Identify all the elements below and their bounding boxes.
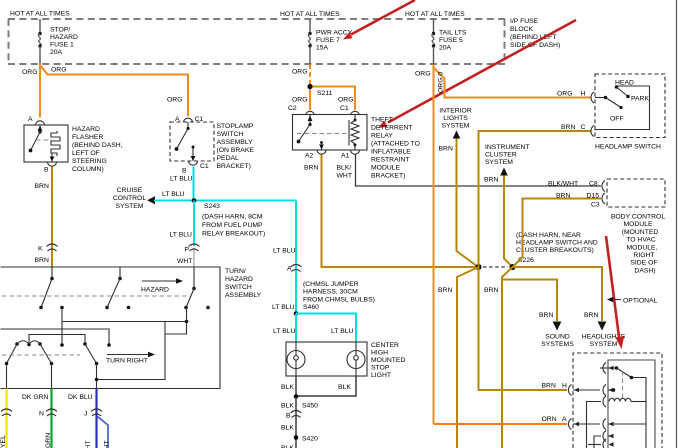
- svg-text:BLK: BLK: [338, 384, 351, 391]
- internal wire horizontal y322: [62, 321, 187, 323]
- hazard arrow label: [141, 278, 183, 293]
- svg-text:BRN: BRN: [539, 312, 553, 319]
- svg-text:20A: 20A: [50, 49, 63, 56]
- svg-text:BRN: BRN: [439, 146, 453, 153]
- svg-text:BRN: BRN: [35, 257, 49, 264]
- internal wire contact3 drop: [165, 308, 188, 335]
- internal wire riser to blue node: [97, 322, 166, 380]
- svg-text:(BEHIND DASH,: (BEHIND DASH,: [72, 142, 123, 149]
- dimmer coil row: [587, 396, 647, 448]
- svg-text:DASH): DASH): [634, 267, 655, 274]
- svg-text:FUSE 7: FUSE 7: [316, 37, 340, 44]
- svg-text:TAIL LTS: TAIL LTS: [439, 30, 467, 37]
- svg-text:LEFT OF: LEFT OF: [72, 150, 100, 157]
- svg-text:SOUND: SOUND: [545, 334, 570, 341]
- headlamp switch contacts: [595, 85, 630, 109]
- hazard flasher FL box: [24, 125, 68, 162]
- svg-text:H: H: [581, 91, 586, 98]
- connector C (headlamp switch): [591, 126, 594, 137]
- relay switch (C2 side): [297, 115, 313, 144]
- headlamp switch box (dashed): [595, 74, 665, 138]
- svg-text:HAZARD: HAZARD: [72, 126, 100, 133]
- internal wire from contact to lower section: [61, 308, 63, 346]
- svg-text:FUSE 5: FUSE 5: [439, 37, 463, 44]
- arrow to cruise control system: [147, 196, 155, 204]
- wire ORN to headlight dimmer A: [434, 423, 568, 425]
- svg-text:ORG 0: ORG 0: [438, 72, 445, 93]
- arrow to headlights system: [598, 322, 607, 331]
- wire LT BLU S460 branch to right bulb: [296, 314, 356, 343]
- svg-text:SYSTEM: SYSTEM: [442, 123, 470, 130]
- node S420: [294, 435, 318, 442]
- headlight dimmer switch box (dashed): [573, 353, 662, 448]
- label THEFT DETERRENT RELAY (ATTACHED TO INFLATABLE RESTRAINT MODULE BRACKET): [371, 117, 420, 180]
- arrow to interior lights system: [453, 131, 461, 139]
- connector arcs C2 C1 (relay top): [306, 111, 360, 115]
- svg-text:STEERING: STEERING: [72, 158, 107, 165]
- wire BRN right splice to D15: [513, 199, 602, 268]
- svg-text:C1: C1: [200, 163, 209, 170]
- svg-text:WHT: WHT: [104, 441, 111, 448]
- svg-text:TURN RIGHT: TURN RIGHT: [106, 358, 148, 365]
- svg-text:15A: 15A: [316, 45, 329, 52]
- wire BRN to interior lights: [457, 139, 478, 267]
- svg-text:ORG: ORG: [292, 97, 307, 104]
- svg-text:SIDE OF: SIDE OF: [630, 260, 657, 267]
- headlamp switch internal wire to C: [595, 86, 650, 130]
- label HEADLIGHTS SYSTEM: [582, 334, 626, 349]
- label SOUND SYSTEMS: [541, 334, 574, 349]
- svg-text:BLK: BLK: [281, 425, 294, 432]
- wire BLK bulbs to S450: [296, 376, 356, 397]
- wire ORG dashed (optional) fuse7 to S211: [309, 65, 311, 86]
- svg-text:LT BLU: LT BLU: [273, 248, 296, 255]
- svg-text:RELAY BREAKOUT): RELAY BREAKOUT): [202, 231, 265, 238]
- svg-text:CRUISE: CRUISE: [117, 187, 143, 194]
- headlight dimmer inner housing: [608, 360, 655, 448]
- stoplamp switch S box (dashed): [170, 122, 214, 161]
- svg-text:HOT AT ALL TIMES: HOT AT ALL TIMES: [405, 11, 465, 18]
- connector B in-line: [286, 411, 302, 420]
- relay pin A2: [319, 141, 324, 150]
- svg-text:BRN: BRN: [304, 165, 318, 172]
- svg-text:C1: C1: [340, 105, 349, 112]
- svg-text:SWITCH: SWITCH: [217, 131, 244, 138]
- label INSTRUMENT CLUSTER SYSTEM: [485, 144, 530, 166]
- svg-text:OFF: OFF: [610, 116, 624, 123]
- svg-text:DK GRN: DK GRN: [22, 394, 49, 401]
- wire ORG S211 to C1: [310, 87, 355, 111]
- wire BRN to sound systems: [502, 280, 557, 322]
- svg-text:HAZARD: HAZARD: [141, 287, 169, 294]
- turn switch dashed travel line: [2, 354, 80, 356]
- wire BRN splice up to headlamp switch C: [479, 131, 592, 267]
- svg-text:C8: C8: [589, 181, 598, 188]
- wire LT BLU vertical to A connector: [295, 201, 297, 314]
- optional flag: [607, 297, 658, 305]
- svg-text:BLK/: BLK/: [337, 165, 352, 172]
- svg-text:BRN: BRN: [556, 193, 570, 200]
- node S450: [294, 394, 318, 409]
- label ORG H: [557, 91, 586, 98]
- connector D15 (BCM): [602, 193, 605, 204]
- svg-text:LIGHT: LIGHT: [371, 372, 391, 379]
- svg-text:B: B: [286, 413, 291, 420]
- svg-text:ORN: ORN: [542, 416, 557, 423]
- svg-text:ASSEMBLY: ASSEMBLY: [225, 292, 262, 299]
- label HAZARD FLASHER (BEHIND DASH, LEFT OF STEERING COLUMN): [72, 126, 123, 173]
- wire BLK/WHT relay A1 to BCM C8: [356, 155, 602, 187]
- svg-text:ORG: ORG: [557, 91, 572, 98]
- wire DK BLU with split: [68, 389, 111, 448]
- hazard switch dashed travel line: [2, 295, 190, 297]
- svg-text:RELAY: RELAY: [371, 133, 393, 140]
- svg-text:HIGH: HIGH: [371, 350, 388, 357]
- node S226 left splice: [476, 264, 482, 270]
- svg-text:COLUMN): COLUMN): [72, 166, 104, 173]
- theft deterrent relay box: [293, 115, 368, 151]
- svg-text:H: H: [562, 383, 567, 390]
- svg-text:WHT: WHT: [337, 173, 352, 180]
- connector arcs A2 A1 (relay bottom): [317, 151, 360, 155]
- svg-text:(ON BRAKE: (ON BRAKE: [217, 147, 255, 154]
- svg-text:C3: C3: [591, 202, 600, 209]
- svg-text:ORG: ORG: [51, 67, 66, 74]
- wire BRN flasher B to K: [51, 167, 53, 268]
- svg-text:DETERRENT: DETERRENT: [371, 125, 413, 132]
- dimmer pin row 6: [588, 439, 606, 448]
- page edge rule: [676, 0, 678, 448]
- fuse F5 TAIL LTS FUSE 5 20A: [432, 19, 467, 65]
- svg-text:B: B: [182, 168, 187, 175]
- label BRN C: [561, 124, 586, 131]
- connector H (dimmer): [568, 385, 615, 396]
- connector C8 (BCM): [602, 181, 605, 192]
- svg-text:STOPLAMP: STOPLAMP: [217, 123, 254, 130]
- svg-text:HAZARD: HAZARD: [50, 34, 78, 41]
- svg-text:C: C: [581, 124, 586, 131]
- svg-text:HAZARD: HAZARD: [225, 276, 253, 283]
- label BLK/WHT: [337, 165, 352, 180]
- svg-text:ORG: ORG: [415, 71, 430, 78]
- wire BRN right splice down-left branch: [502, 267, 513, 448]
- svg-text:INFLATABLE: INFLATABLE: [371, 149, 411, 156]
- svg-text:TURN/: TURN/: [225, 268, 246, 275]
- label CENTER HIGH MOUNTED STOP LIGHT: [371, 342, 405, 379]
- svg-text:HARNESS, 30CM: HARNESS, 30CM: [303, 289, 358, 296]
- svg-text:S420: S420: [302, 436, 318, 443]
- label BLK/WHT C8: [548, 181, 598, 188]
- svg-text:CENTER: CENTER: [371, 342, 399, 349]
- label (DASH HARN, 8CM FROM FUEL PUMP RELAY BREAKOUT): [202, 214, 265, 238]
- svg-text:WHT: WHT: [177, 258, 192, 265]
- svg-text:BRN: BRN: [484, 177, 498, 184]
- svg-text:HEADLAMP SWITCH: HEADLAMP SWITCH: [595, 144, 661, 151]
- dimmer pin row 5: [594, 431, 613, 448]
- wire BLK S450 to B: [295, 397, 297, 448]
- svg-text:THEFT: THEFT: [371, 117, 393, 124]
- svg-text:S460: S460: [303, 304, 319, 311]
- svg-text:PARK: PARK: [631, 96, 649, 103]
- svg-text:BLOCK: BLOCK: [510, 26, 534, 33]
- hazard switch contact 3 (WHT feed): [184, 267, 210, 309]
- wire BRN relay A2 to S226: [322, 155, 478, 268]
- svg-text:S211: S211: [317, 90, 333, 97]
- label BRN H (dimmer): [542, 383, 568, 390]
- svg-text:BLK/WHT: BLK/WHT: [548, 181, 578, 188]
- wire DK GRN: [22, 389, 57, 448]
- node S211: [308, 84, 333, 97]
- svg-text:MODULE,: MODULE,: [627, 244, 658, 251]
- connector K in-line: [38, 244, 58, 253]
- label BRN D15: [556, 193, 599, 200]
- svg-text:N: N: [39, 411, 44, 418]
- svg-text:FUSE 1: FUSE 1: [50, 42, 74, 49]
- svg-text:BRN: BRN: [35, 183, 49, 190]
- svg-text:A: A: [562, 416, 567, 423]
- label BODY CONTROL MODULE (MOUNTED TO HVAC MODULE, RIGHT SIDE OF DASH): [611, 214, 665, 275]
- svg-text:ORG: ORG: [22, 69, 37, 76]
- wire YEL: [0, 389, 12, 448]
- svg-text:ORG: ORG: [167, 97, 182, 104]
- svg-text:ORG: ORG: [338, 97, 353, 104]
- wire ORG from fuse 1 down to hazard flasher A: [39, 65, 41, 118]
- wire ORG S211 to C2: [309, 87, 311, 111]
- svg-text:S243: S243: [204, 203, 220, 210]
- svg-text:BRACKET): BRACKET): [371, 173, 405, 180]
- hazard switch contact 1: [39, 267, 54, 309]
- CHMSL bulb 1: [287, 342, 305, 376]
- I/P fuse block boundary (dashed box): [8, 19, 505, 64]
- wire BRN to instrument cluster: [504, 176, 512, 267]
- svg-text:CONTROL: CONTROL: [113, 195, 146, 202]
- label CRUISE CONTROL SYSTEM: [113, 187, 146, 210]
- svg-text:BODY CONTROL: BODY CONTROL: [611, 214, 665, 221]
- svg-text:FROM CHMSL BULBS): FROM CHMSL BULBS): [303, 296, 375, 303]
- turn switch wiper fan: [5, 341, 111, 366]
- node S460: [294, 311, 299, 316]
- dashed splice link S226: [483, 266, 508, 268]
- svg-text:TO HVAC: TO HVAC: [626, 237, 656, 244]
- label ORN A (dimmer): [542, 416, 568, 423]
- hazard flasher switch: [29, 125, 43, 152]
- wire ORG tail fuse main vertical: [433, 65, 435, 425]
- svg-text:BRN: BRN: [484, 287, 498, 294]
- svg-text:YEL: YEL: [0, 435, 7, 448]
- svg-text:LT BLU: LT BLU: [170, 176, 193, 183]
- red callout arrow 3 (to headlights system detail): [606, 236, 624, 349]
- svg-text:(DASH HARN, NEAR: (DASH HARN, NEAR: [516, 232, 581, 239]
- svg-text:C2: C2: [288, 105, 297, 112]
- node S243: [192, 198, 220, 210]
- svg-text:DK BLU: DK BLU: [68, 394, 93, 401]
- body control module box (dashed): [607, 179, 665, 207]
- wire BRN splice down-left branch: [457, 267, 479, 448]
- svg-text:A1: A1: [341, 153, 350, 160]
- wire BRN to headlights system: [513, 267, 603, 321]
- svg-text:(DASH HARN, 8CM: (DASH HARN, 8CM: [202, 214, 263, 221]
- svg-text:HEADLAMP SWITCH AND: HEADLAMP SWITCH AND: [516, 240, 598, 247]
- connector A (dimmer): [568, 419, 646, 430]
- connector pin A (hazard flasher): [28, 116, 45, 125]
- svg-text:LT BLU: LT BLU: [272, 304, 295, 311]
- svg-text:A2: A2: [305, 153, 314, 160]
- svg-text:INTERIOR: INTERIOR: [439, 108, 472, 115]
- svg-text:OPTIONAL: OPTIONAL: [623, 298, 658, 305]
- svg-text:BRN: BRN: [438, 287, 452, 294]
- svg-text:LIGHTS: LIGHTS: [443, 115, 468, 122]
- connector pin B (hazard flasher): [44, 153, 57, 174]
- svg-text:SYSTEM: SYSTEM: [485, 159, 513, 166]
- svg-text:PEDAL: PEDAL: [217, 155, 240, 162]
- wire LT BLU stoplamp to S243: [193, 167, 195, 201]
- svg-text:BRACKET): BRACKET): [217, 163, 251, 170]
- turn switch right contact: [83, 342, 98, 365]
- arrow to sound systems: [553, 322, 562, 331]
- CHMSL bulb 2: [347, 342, 365, 376]
- connector A in-line (CHMSL jumper): [291, 265, 302, 272]
- svg-text:CLUSTER BREAKOUTS): CLUSTER BREAKOUTS): [516, 247, 594, 254]
- turn/hazard switch assembly box: [1, 267, 221, 389]
- hazard flasher heater element: [51, 131, 60, 156]
- svg-text:BLK: BLK: [281, 384, 294, 391]
- fuse F1 STOP/HAZARD FUSE 1 20A: [38, 19, 78, 65]
- wire LT BLU S243 down to P: [193, 201, 195, 247]
- turn switch wiper feed: [29, 335, 85, 345]
- svg-text:(ATTACHED TO: (ATTACHED TO: [371, 141, 420, 148]
- svg-text:LT BLU: LT BLU: [162, 191, 185, 198]
- svg-text:S450: S450: [302, 403, 318, 410]
- connector pin labels A / C1 (stoplamp switch): [175, 116, 203, 123]
- svg-text:ASSEMBLY: ASSEMBLY: [217, 139, 254, 146]
- wire LT BLU riser label A: [273, 248, 296, 273]
- svg-text:BRN: BRN: [584, 312, 598, 319]
- svg-text:RIGHT: RIGHT: [633, 252, 654, 259]
- fuse F7 PWR ACCY FUSE 7 15A: [308, 19, 352, 65]
- label STOPLAMP SWITCH ASSEMBLY (ON BRAKE PEDAL BRACKET): [217, 123, 255, 170]
- svg-text:J: J: [84, 411, 87, 418]
- label TURN/HAZARD SWITCH ASSEMBLY: [225, 268, 262, 299]
- svg-text:A: A: [28, 116, 33, 123]
- svg-text:LT BLU: LT BLU: [273, 328, 296, 335]
- svg-text:BLK: BLK: [281, 403, 294, 410]
- hazard switch contact 2: [105, 267, 122, 309]
- svg-text:SWITCH: SWITCH: [225, 284, 252, 291]
- svg-text:SYSTEM: SYSTEM: [116, 203, 144, 210]
- svg-text:CLUSTER: CLUSTER: [485, 152, 517, 159]
- svg-text:INSTRUMENT: INSTRUMENT: [485, 144, 530, 151]
- CHMSL box: [286, 342, 367, 376]
- internal wire node mid dots: [60, 306, 130, 310]
- svg-text:B: B: [44, 167, 49, 174]
- svg-text:K: K: [38, 246, 43, 253]
- hazard flasher internal dashed link: [36, 139, 52, 141]
- label INTERIOR LIGHTS SYSTEM: [439, 108, 472, 130]
- svg-text:20A: 20A: [439, 45, 452, 52]
- wire LT BLU horizontal to CHMSL riser: [154, 200, 296, 202]
- dimmer pin row 1: [600, 363, 646, 448]
- red callout arrow 1 (to PWR ACCY fuse): [343, 0, 415, 40]
- svg-text:BRN: BRN: [542, 383, 556, 390]
- svg-text:FLASHER: FLASHER: [72, 134, 103, 141]
- svg-text:MODULE: MODULE: [371, 165, 401, 172]
- internal wire exits: [7, 364, 99, 389]
- svg-text:FROM FUEL PUMP: FROM FUEL PUMP: [202, 222, 263, 229]
- svg-text:RESTRAINT: RESTRAINT: [371, 157, 410, 164]
- wire BRN splice down to dimmer H: [479, 267, 568, 390]
- dimmer mechanical dashed link: [622, 371, 624, 398]
- node S226 right splice: [510, 264, 516, 270]
- connector pin B/C1 (stoplamp bottom): [182, 162, 209, 175]
- wire WHT P to switch box: [193, 248, 195, 267]
- svg-text:LT BLU: LT BLU: [331, 328, 354, 335]
- connector H (headlamp switch): [591, 92, 594, 103]
- relay pin A1: [354, 145, 356, 150]
- svg-text:SYSTEMS: SYSTEMS: [541, 341, 574, 348]
- svg-text:(CHMSL JUMPER: (CHMSL JUMPER: [303, 281, 359, 288]
- svg-text:HOT AT ALL TIMES: HOT AT ALL TIMES: [280, 11, 340, 18]
- svg-text:GRN: GRN: [45, 433, 52, 448]
- svg-text:BRN: BRN: [561, 124, 575, 131]
- wire LT BLU S460 to left bulb: [295, 314, 297, 343]
- svg-text:MODULE: MODULE: [623, 221, 653, 228]
- connector P in-line: [185, 244, 200, 254]
- svg-text:HOT AT ALL TIMES: HOT AT ALL TIMES: [10, 11, 70, 18]
- relay coil (C1 side): [349, 115, 359, 147]
- wire ORG branch fuse1 to stoplamp switch: [40, 65, 188, 116]
- wire ORG branch to headlamp switch H: [434, 68, 592, 98]
- svg-text:I/P FUSE: I/P FUSE: [510, 18, 539, 25]
- stoplamp switch contacts: [175, 122, 196, 161]
- internal wire left horizontal y329: [1, 329, 110, 345]
- label I/P FUSE BLOCK: [510, 18, 560, 49]
- dimmer pin arrowheads: [574, 366, 614, 447]
- relay internal dashed link: [297, 133, 349, 135]
- svg-text:(MOUNTED: (MOUNTED: [622, 229, 659, 236]
- label (DASH HARN, NEAR HEADLAMP SWITCH AND CLUSTER BREAKOUTS) S226: [516, 232, 598, 264]
- svg-text:D15: D15: [587, 193, 600, 200]
- svg-text:ORG: ORG: [292, 69, 307, 76]
- svg-text:WHT: WHT: [85, 441, 92, 448]
- svg-text:LT BLU: LT BLU: [170, 232, 193, 239]
- svg-text:SYSTEM: SYSTEM: [590, 341, 618, 348]
- label (CHMSL JUMPER HARNESS, 30CM FROM CHMSL BULBS) S460: [303, 281, 375, 311]
- turn right arrow label: [106, 352, 155, 365]
- arrow to instrument cluster system: [500, 168, 508, 176]
- red callout arrow 2 (to theft deterrent relay): [378, 20, 576, 128]
- svg-text:MOUNTED: MOUNTED: [371, 357, 405, 364]
- svg-text:STOP/: STOP/: [50, 27, 70, 34]
- svg-text:P: P: [185, 247, 190, 254]
- svg-text:STOP: STOP: [371, 365, 390, 372]
